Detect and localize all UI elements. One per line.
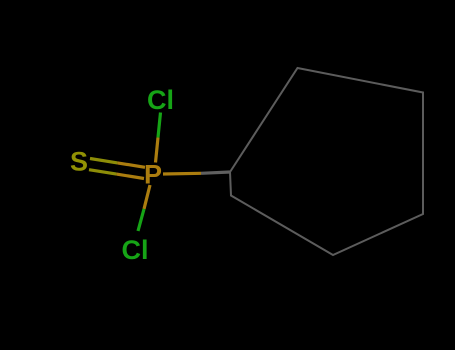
wire S=P double bond upper line (P half gold) [118, 163, 146, 167]
wire P-Cl bottom bond (Cl half green) [138, 209, 144, 231]
wire P-C bond (C half, gray) [201, 172, 230, 173]
svg-text:P: P [144, 160, 162, 190]
wire P-Cl top bond (P half gold) [156, 138, 159, 163]
wire P-Cl bottom bond (P half gold) [144, 185, 150, 209]
wire P-Cl top bond (Cl half green) [158, 113, 161, 138]
wire S=P double bond lower line (P half gold) [117, 174, 145, 178]
wire P-C bond (P half, gold) [163, 172, 201, 176]
wire S=P double bond lower line (S half olive) [89, 170, 117, 174]
svg-text:S: S [70, 147, 88, 177]
svg-text:Cl: Cl [147, 85, 174, 115]
ring (cyclohexane/phenyl) [230, 68, 423, 255]
svg-text:Cl: Cl [122, 235, 149, 265]
wire S=P double bond upper line (S half olive) [90, 159, 118, 163]
